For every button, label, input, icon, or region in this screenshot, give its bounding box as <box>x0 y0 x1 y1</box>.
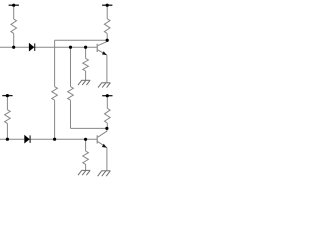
ground G4 (Q2 emitter) <box>98 171 111 176</box>
junction dot: Q1 collector node <box>106 39 109 42</box>
resistor R2 <box>104 19 110 34</box>
wire: bottom net down into R8 <box>85 139 87 151</box>
junction dot: V1/bottom net <box>53 138 56 141</box>
wire: R1 to top net <box>13 33 15 47</box>
wire: R2 to Q1 collector node <box>106 34 108 41</box>
transistor Q1 <box>97 40 107 83</box>
junction dot: Q2 collector node <box>105 127 108 130</box>
wire: vertical cross-coupling line V2 lower segment <box>70 100 72 128</box>
junction dot: P1 <box>12 4 15 7</box>
resistor R8 <box>83 151 89 164</box>
power rail VCC P2 <box>102 4 112 6</box>
wire: VCC lead into R2 <box>106 5 108 19</box>
junction dot: P4 <box>106 94 109 97</box>
junction dot: R5/top net <box>84 46 87 49</box>
ground G2 (Q1 emitter) <box>98 83 111 88</box>
diode D1 <box>29 43 35 51</box>
wire: R3 to bottom net <box>6 123 8 139</box>
diode D2 <box>25 135 31 143</box>
wire: top feedback rail from node A to Q1 collector <box>55 39 108 41</box>
wire: bottom horizontal net from left edge to Q2 base <box>0 138 97 140</box>
wire: R5 to ground <box>85 71 87 80</box>
wire: bottom feedback rail to Q2 collector <box>71 127 107 129</box>
wire: VCC lead into R1 <box>13 5 15 19</box>
junction dot: R1/top net <box>12 46 15 49</box>
wire: vertical cross-coupling line V1 upper segment <box>54 40 56 86</box>
resistor R5 <box>83 58 89 71</box>
junction dot: V2/top net <box>69 46 72 49</box>
resistor R1 <box>11 19 17 33</box>
power rail VCC P1 <box>9 4 19 6</box>
wire: top horizontal net from left edge to Q1 base <box>0 46 97 48</box>
wire: R8 to ground <box>85 164 87 170</box>
junction dot: P3 <box>6 94 9 97</box>
power rail VCC P3 <box>2 95 12 97</box>
resistor R4 <box>105 108 111 123</box>
wire: vertical cross-coupling line V1 lower segment <box>54 100 56 139</box>
wire: R4 to Q2 collector node <box>106 123 108 128</box>
junction dot: P2 <box>106 4 109 7</box>
ground G3 (below R8) <box>78 170 90 175</box>
resistor R6 <box>52 87 58 101</box>
transistor Q2 <box>97 128 107 170</box>
power rail VCC P4 <box>102 95 112 97</box>
resistor R3 <box>5 110 11 124</box>
resistor R7 <box>68 87 74 101</box>
ground G1 (below R5) <box>78 80 90 85</box>
wire: VCC lead into R4 <box>106 96 108 109</box>
junction dot: R3/bottom net <box>6 138 9 141</box>
wire: top net down into R5 <box>85 47 87 58</box>
junction dot: R8/bottom net <box>84 138 87 141</box>
wire: VCC lead into R3 <box>6 96 8 110</box>
wire: vertical cross-coupling line V2 upper segment <box>70 47 72 86</box>
